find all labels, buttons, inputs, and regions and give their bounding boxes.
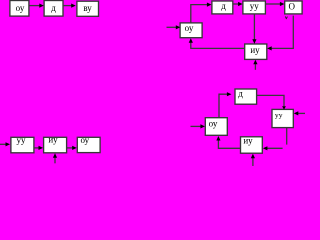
svg-text:уу: уу bbox=[250, 1, 260, 11]
svg-text:оу: оу bbox=[185, 23, 194, 33]
svg-text:иу: иу bbox=[250, 45, 260, 55]
svg-text:д: д bbox=[221, 1, 226, 11]
svg-text:ву: ву bbox=[83, 3, 92, 13]
svg-text:иу: иу bbox=[243, 136, 253, 146]
svg-text:уу: уу bbox=[17, 135, 27, 145]
svg-text:иу: иу bbox=[48, 135, 58, 145]
svg-text:О: О bbox=[288, 1, 295, 11]
svg-text:д: д bbox=[51, 3, 56, 13]
svg-text:д: д bbox=[238, 88, 243, 98]
svg-text:оу: оу bbox=[16, 3, 25, 13]
svg-text:оу: оу bbox=[80, 135, 89, 145]
svg-text:уу: уу bbox=[275, 111, 283, 120]
svg-text:оу: оу bbox=[209, 118, 218, 128]
